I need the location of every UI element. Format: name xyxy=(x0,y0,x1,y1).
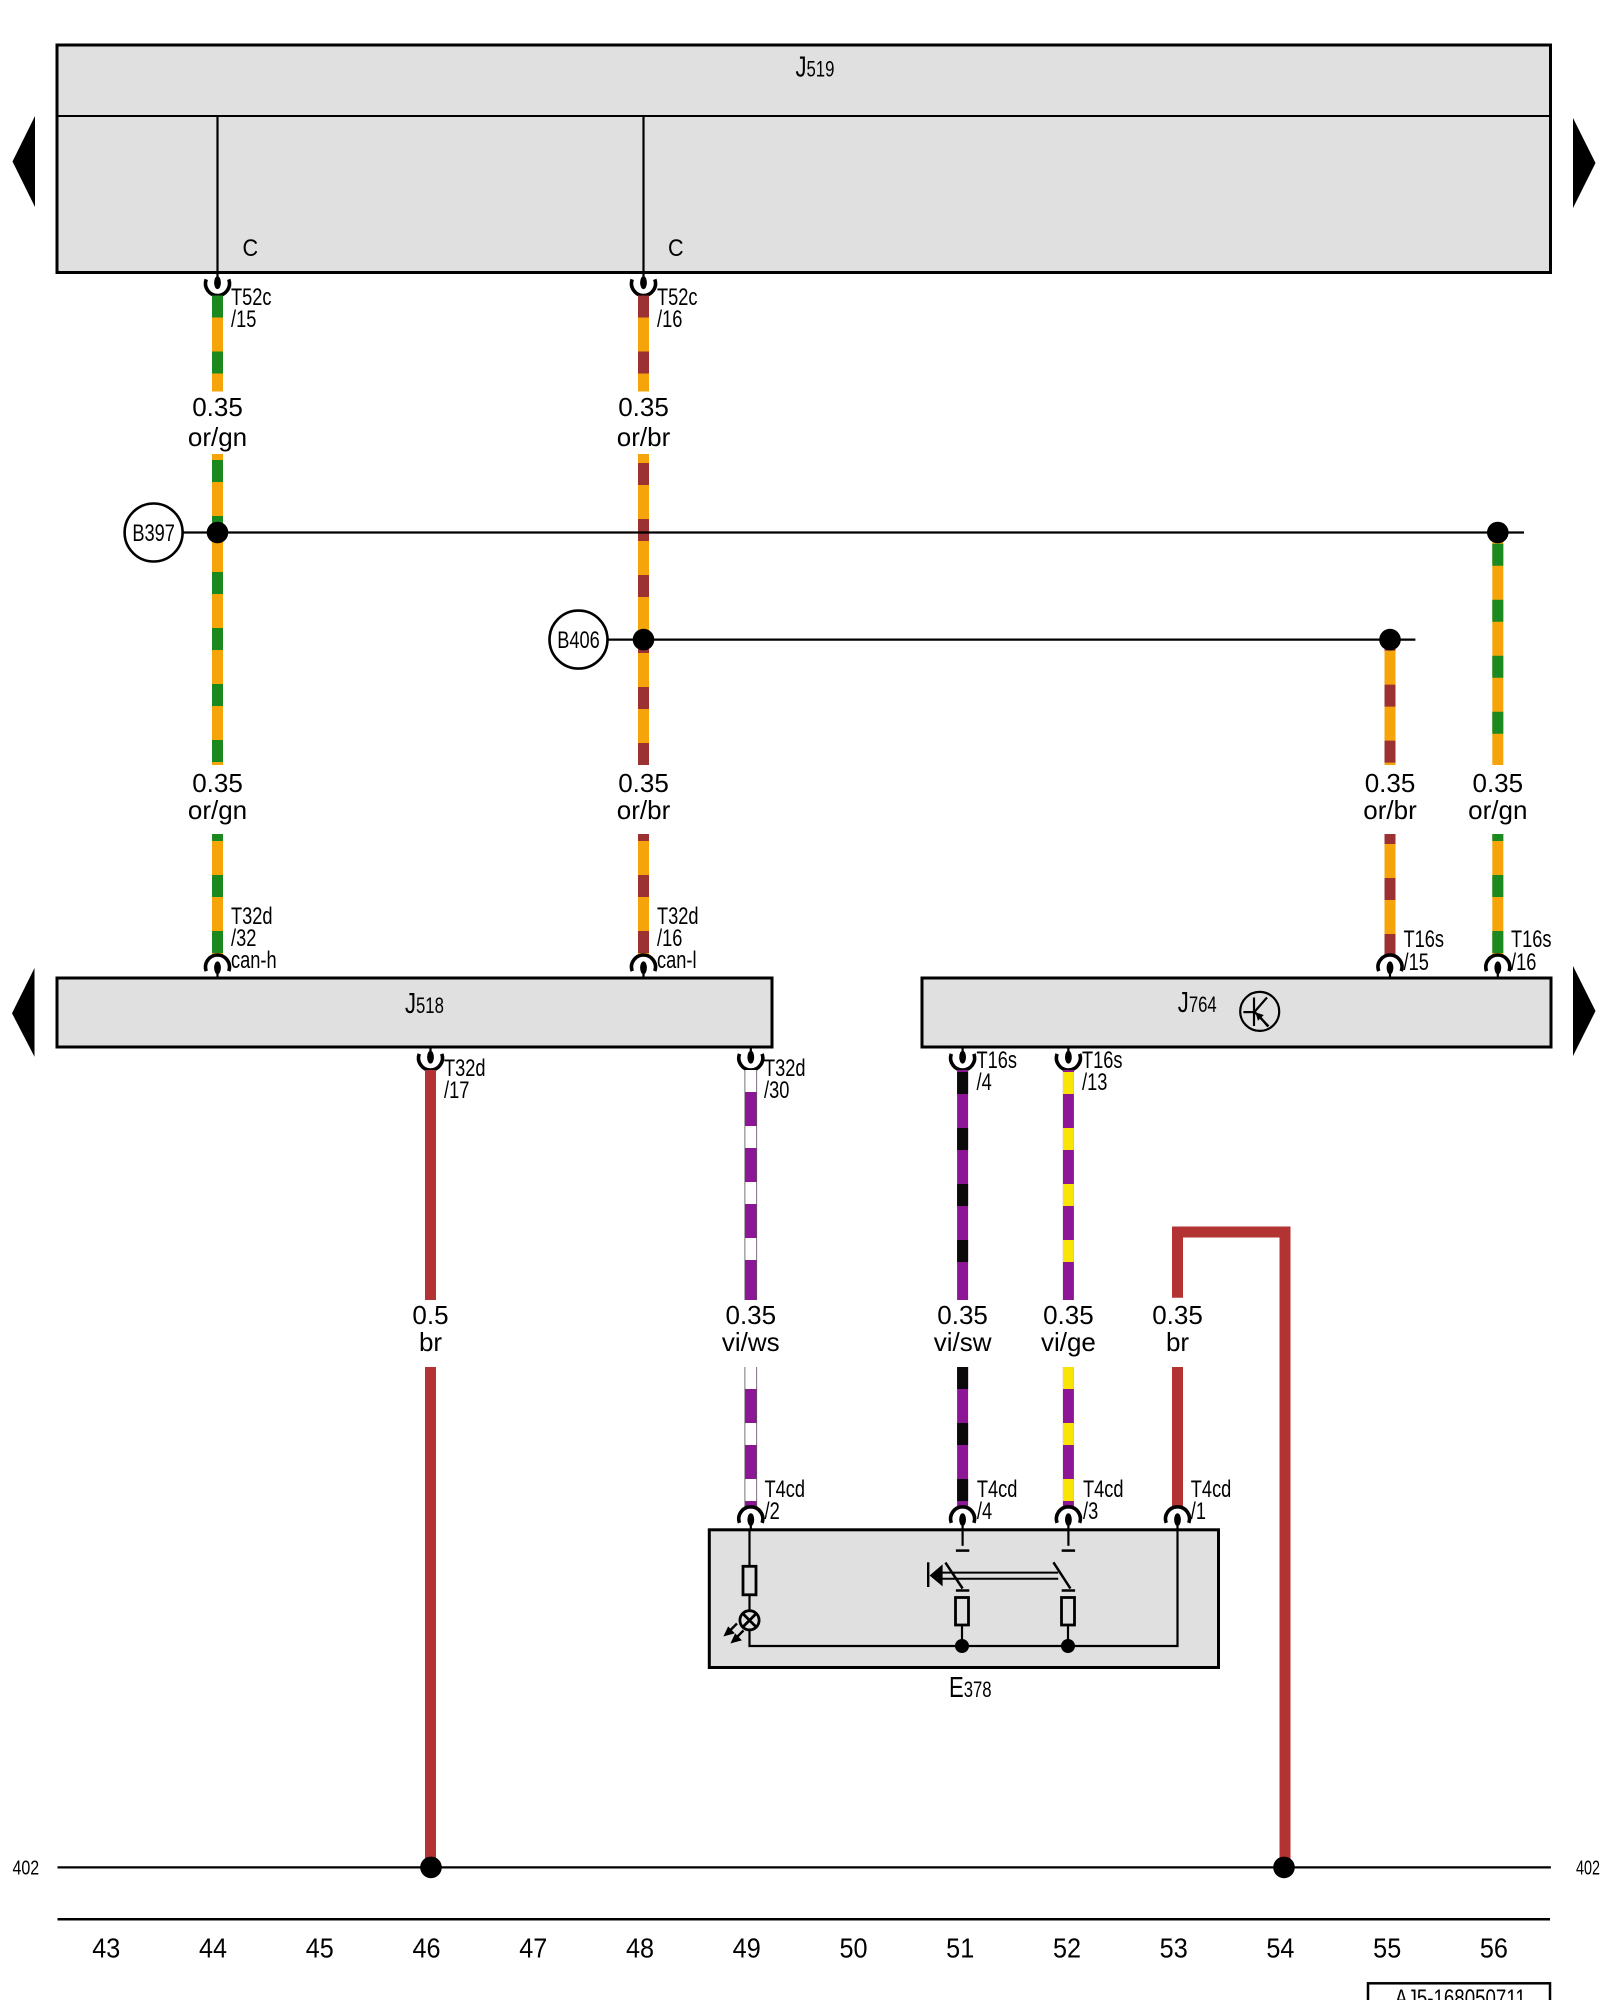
svg-text:43: 43 xyxy=(92,1932,120,1964)
control unit J764 box xyxy=(922,978,1551,1047)
svg-text:47: 47 xyxy=(519,1932,547,1964)
connector T52c/16 xyxy=(632,273,656,296)
switch blade right xyxy=(1053,1562,1070,1588)
svg-text:/4: /4 xyxy=(977,1498,992,1525)
lamp L (symbol) xyxy=(740,1611,759,1630)
wire or/br right segment 1 xyxy=(1385,640,1396,765)
svg-text:46: 46 xyxy=(412,1932,440,1964)
svg-text:0.5: 0.5 xyxy=(412,1300,448,1330)
ground wire 402 xyxy=(58,1866,1551,1868)
wire vi/sw segment 1 xyxy=(957,1070,968,1300)
wire 0.5 br segment 1 xyxy=(425,1070,436,1300)
svg-text:/16: /16 xyxy=(1511,949,1536,976)
diagnostics K symbol xyxy=(1240,992,1279,1031)
wire vi/ge segment 2 xyxy=(1063,1367,1074,1507)
svg-text:/1: /1 xyxy=(1191,1498,1206,1525)
svg-text:0.35: 0.35 xyxy=(937,1300,988,1330)
wire 0.35 br lower segment xyxy=(1172,1367,1183,1507)
svg-text:br: br xyxy=(419,1327,442,1357)
switch unit E378 box xyxy=(709,1530,1218,1668)
continuation arrow left (J518) xyxy=(12,968,35,1057)
svg-text:B406: B406 xyxy=(557,627,600,654)
wire vi/sw segment 2 xyxy=(957,1367,968,1507)
connector T32d/16 can-l xyxy=(632,955,656,978)
connector T4cd/2 xyxy=(739,1507,763,1530)
svg-text:0.35: 0.35 xyxy=(192,768,243,798)
wire or/br segment 3 xyxy=(638,834,649,955)
svg-text:44: 44 xyxy=(199,1932,227,1964)
svg-text:52: 52 xyxy=(1053,1932,1081,1964)
svg-text:56: 56 xyxy=(1480,1932,1508,1964)
wire or/gn right segment 1 xyxy=(1492,532,1503,765)
splice circle B406 xyxy=(550,611,608,669)
svg-text:J519: J519 xyxy=(796,52,835,84)
svg-text:can-h: can-h xyxy=(231,947,277,974)
continuation arrow right (J519) xyxy=(1573,118,1596,208)
svg-text:55: 55 xyxy=(1373,1932,1401,1964)
svg-text:/30: /30 xyxy=(764,1077,789,1104)
svg-text:0.35: 0.35 xyxy=(725,1300,776,1330)
connector T32d/32 can-h xyxy=(206,955,230,978)
wire B406 horizontal xyxy=(608,638,1416,640)
connector T16s/15 xyxy=(1378,955,1402,978)
svg-text:vi/ge: vi/ge xyxy=(1041,1327,1096,1357)
svg-text:or/gn: or/gn xyxy=(1468,795,1527,825)
frame line xyxy=(58,1918,1551,1921)
svg-text:/2: /2 xyxy=(765,1498,780,1525)
svg-text:402: 402 xyxy=(13,1857,40,1879)
splice circle B397 xyxy=(125,504,183,562)
svg-text:E378: E378 xyxy=(949,1672,992,1704)
connector T32d/30 xyxy=(739,1047,763,1070)
svg-text:0.35: 0.35 xyxy=(618,768,669,798)
junction right end B397 xyxy=(1487,522,1509,544)
junction br wire / 402 xyxy=(420,1857,442,1879)
wire vi/ge segment 1 xyxy=(1063,1070,1074,1300)
svg-text:0.35: 0.35 xyxy=(1472,768,1523,798)
svg-text:/15: /15 xyxy=(1404,949,1429,976)
wire vi/ws segment 1 xyxy=(745,1070,758,1300)
svg-text:53: 53 xyxy=(1160,1932,1188,1964)
control unit J519 box xyxy=(57,45,1551,273)
connector T4cd/4 xyxy=(951,1507,975,1530)
svg-text:0.35: 0.35 xyxy=(192,392,243,422)
connector T32d/17 xyxy=(419,1047,443,1070)
switch blade left xyxy=(945,1563,962,1589)
svg-text:/4: /4 xyxy=(977,1069,992,1096)
mechanical coupling double line xyxy=(941,1572,1058,1574)
svg-text:/13: /13 xyxy=(1082,1069,1107,1096)
svg-text:or/br: or/br xyxy=(617,422,671,452)
svg-text:/15: /15 xyxy=(231,306,256,333)
connector T4cd/3 xyxy=(1056,1507,1080,1530)
wire or/br right segment 2 xyxy=(1385,834,1396,955)
wire or/gn segment 1 (T52c/15 down) xyxy=(212,296,223,392)
internal wire stub to pin T52c/16 xyxy=(642,116,644,273)
svg-text:0.35: 0.35 xyxy=(1152,1300,1203,1330)
wire or/gn right segment 2 xyxy=(1492,834,1503,955)
svg-text:or/gn: or/gn xyxy=(188,422,247,452)
junction right end B406 xyxy=(1379,629,1401,651)
svg-text:48: 48 xyxy=(626,1932,654,1964)
LED arrows xyxy=(726,1624,744,1642)
junction dot left xyxy=(955,1639,969,1653)
svg-text:0.35: 0.35 xyxy=(618,392,669,422)
svg-text:51: 51 xyxy=(946,1932,974,1964)
connector T52c/15 xyxy=(206,273,230,296)
svg-text:C: C xyxy=(243,234,259,261)
svg-text:45: 45 xyxy=(306,1932,334,1964)
svg-text:0.35: 0.35 xyxy=(1043,1300,1094,1330)
connector T16s/4 xyxy=(951,1047,975,1070)
actuation arrow xyxy=(930,1564,943,1586)
wire vi/ws segment 2 xyxy=(745,1367,758,1507)
svg-text:vi/ws: vi/ws xyxy=(722,1327,780,1357)
svg-text:49: 49 xyxy=(733,1932,761,1964)
svg-text:J764: J764 xyxy=(1178,987,1217,1019)
svg-text:0.35: 0.35 xyxy=(1365,768,1416,798)
svg-text:J518: J518 xyxy=(405,988,444,1020)
svg-text:/17: /17 xyxy=(444,1077,469,1104)
internal wire pin4 to contact xyxy=(961,1530,963,1546)
svg-text:can-l: can-l xyxy=(657,947,697,974)
resistor right branch xyxy=(1062,1598,1075,1626)
wire resistor to lamp xyxy=(748,1595,750,1611)
svg-text:54: 54 xyxy=(1266,1932,1294,1964)
internal bottom wire xyxy=(750,1530,1178,1646)
svg-text:B397: B397 xyxy=(132,520,175,547)
svg-text:402: 402 xyxy=(1576,1856,1600,1879)
svg-text:/3: /3 xyxy=(1083,1498,1098,1525)
junction on or/gn at B397 xyxy=(207,522,229,544)
svg-text:/16: /16 xyxy=(657,306,682,333)
wire 0.35 br upper run (corner to E378) xyxy=(1178,1232,1286,1861)
internal wire pin2 to resistor xyxy=(748,1530,750,1567)
wire or/br segment 2 xyxy=(638,454,649,765)
resistor (lamp series) xyxy=(743,1566,756,1595)
continuation arrow left (J519) xyxy=(13,116,36,207)
control unit J518 box xyxy=(57,978,772,1047)
junction dot right xyxy=(1061,1639,1075,1653)
continuation arrow right (J764) xyxy=(1573,966,1596,1056)
wire 0.5 br segment 2 (to node 402) xyxy=(425,1367,436,1861)
svg-text:C: C xyxy=(668,234,684,261)
wire B397 horizontal xyxy=(183,531,1524,533)
connector T4cd/1 xyxy=(1166,1507,1190,1530)
svg-text:or/gn: or/gn xyxy=(188,795,247,825)
wire or/br segment 1 (T52c/16 down) xyxy=(638,296,649,392)
internal wire pin3 to contact xyxy=(1067,1530,1069,1546)
drawing number box AJ5-168050711 xyxy=(1368,1983,1550,2000)
svg-text:or/br: or/br xyxy=(617,795,671,825)
internal wire stub to pin T52c/15 xyxy=(216,116,218,273)
svg-text:or/br: or/br xyxy=(1363,795,1417,825)
junction on or/br at B406 xyxy=(633,629,655,651)
connector T16s/13 xyxy=(1056,1047,1080,1070)
svg-text:vi/sw: vi/sw xyxy=(934,1327,992,1357)
wire or/gn segment 3 xyxy=(212,834,223,955)
junction br (right) / 402 xyxy=(1273,1857,1295,1879)
resistor left branch xyxy=(956,1598,969,1626)
svg-text:AJ5-168050711: AJ5-168050711 xyxy=(1395,1985,1526,2000)
svg-text:50: 50 xyxy=(839,1932,867,1964)
svg-text:br: br xyxy=(1166,1327,1189,1357)
wire or/gn segment 2 xyxy=(212,454,223,765)
connector T16s/16 xyxy=(1486,955,1510,978)
